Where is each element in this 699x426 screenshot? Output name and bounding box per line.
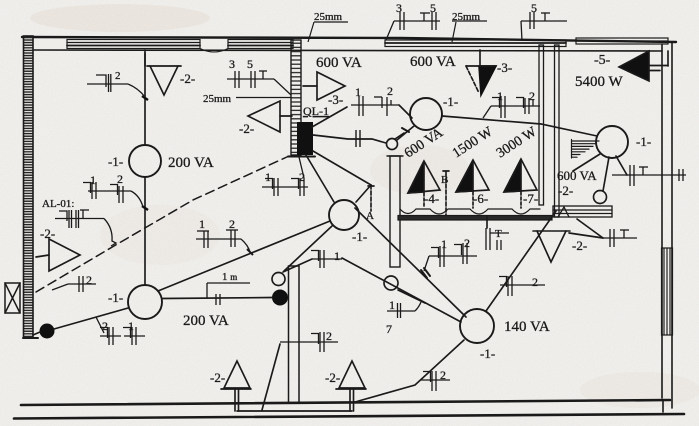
annotation 25mm second	[452, 21, 487, 42]
wire dot D1 to wall	[33, 332, 40, 335]
lamp -1- 140 VA	[460, 309, 494, 343]
junction blob riser lower	[142, 206, 148, 210]
switch SW7b pair 1-2	[196, 230, 253, 255]
annotation 25mm first	[308, 22, 348, 42]
switch SW1	[87, 74, 145, 97]
luminaire -3- filled top-middle	[466, 50, 496, 95]
tap symbol on QL-S1 wire	[356, 130, 360, 147]
window right wall	[662, 248, 673, 335]
heater -7- 3000 W	[504, 159, 537, 208]
switch SW18 near C5	[499, 276, 545, 296]
switch SW12 pair	[351, 96, 399, 116]
window top C	[385, 40, 566, 47]
wall top outer	[22, 37, 676, 42]
wire T10 to sw22	[569, 233, 603, 238]
wire QL to sw12	[312, 107, 347, 127]
junction tick mid	[421, 268, 430, 278]
junction blob riser upper	[142, 96, 148, 100]
wire A to C4	[356, 185, 371, 202]
outlet above junction box	[272, 273, 285, 286]
outlet near wall stub	[384, 276, 398, 290]
interior wall D (bottom middle)	[289, 266, 300, 403]
junction box lower-left	[40, 324, 55, 339]
switch SW19 1-7	[387, 302, 421, 318]
switch SW17 bottom 2	[280, 332, 338, 352]
luminaire -2- beside QL-1	[248, 101, 292, 132]
luminaire -2- bottom left	[221, 361, 251, 411]
switch SW16 T	[486, 228, 509, 250]
switch SW7 pair below QL	[262, 157, 308, 196]
switch SW20 bottom 2	[421, 371, 450, 391]
luminaire -2- bottom middle	[336, 361, 366, 411]
luminaire -2- upper-left	[145, 53, 181, 95]
outlet near QL-1	[387, 128, 410, 150]
wire bottom to sw2	[262, 344, 280, 410]
wire C6 to fan	[573, 154, 600, 171]
luminaire -2- mid-left	[36, 239, 80, 271]
meter X-box	[5, 283, 20, 313]
switch SW21 right room	[612, 165, 686, 186]
lamp -1- center	[329, 200, 359, 230]
wire D1 C4 to C5	[355, 208, 466, 317]
wall bottom band	[21, 400, 670, 405]
luminaire -2- right room	[533, 231, 570, 262]
switch SW5 pair bottom left	[96, 317, 145, 345]
wire S2 to sw1	[283, 259, 312, 272]
wire sw16 stub	[486, 217, 488, 228]
annotation 25mm inside	[236, 97, 291, 99]
interior wall B right pair	[555, 45, 560, 217]
wire C3 to C6	[442, 116, 597, 136]
window top D	[576, 38, 668, 44]
switch SW6 1m	[207, 283, 250, 305]
wire S3 to D2line	[398, 290, 425, 303]
switch SW22 below bench	[603, 229, 637, 247]
wall bottom extra line	[14, 414, 684, 419]
wire C5 to bottom wall	[355, 340, 464, 402]
heater -4- 600 VA	[408, 161, 440, 208]
window top B	[228, 40, 293, 49]
wire sw22 hook	[577, 219, 603, 238]
node A stub	[368, 185, 374, 211]
switch AL-01	[55, 210, 116, 246]
interior wall A foot	[288, 156, 315, 158]
wire sw12 to C3	[399, 105, 412, 118]
heater -6- 1500 W	[456, 160, 489, 208]
lamp -1- 200 VA upper-left	[129, 145, 161, 177]
wire B dashed	[443, 171, 449, 215]
wire dashed feeder	[36, 156, 289, 292]
wall top inner	[33, 50, 662, 51]
switch SW15 one	[311, 250, 342, 268]
wire QL to A	[313, 151, 371, 185]
rotated texts	[402, 124, 540, 161]
heater -5- 5400 W	[619, 51, 668, 81]
outlet right room	[594, 191, 607, 204]
switch SW13 pair	[483, 96, 540, 118]
wire C2 to C4	[158, 221, 330, 291]
window top A	[67, 40, 200, 49]
fan hatch right room	[572, 140, 600, 159]
wire C2 to D2	[162, 298, 272, 299]
junction box center	[272, 290, 288, 306]
wire C6 to sw21	[616, 156, 627, 175]
wall stub C	[387, 156, 403, 267]
panel QL-1	[297, 122, 313, 155]
wire dot D1 to C2	[54, 308, 128, 329]
wire S1 flag to C3	[397, 126, 414, 140]
wire C4 to S2	[284, 226, 332, 271]
wire D2 sw to C5	[342, 258, 461, 322]
switch SW14 pair mid	[424, 243, 477, 271]
wire riser x145 upper	[144, 50, 146, 145]
switch SW2 pair	[83, 182, 143, 207]
wall right	[662, 42, 672, 408]
wire bottom run	[237, 410, 352, 412]
wire riser x145 lower	[144, 177, 146, 285]
lamp -1- 600 VA right room	[596, 126, 628, 158]
switch SW11 top 5	[521, 12, 567, 41]
interior wall A (QL wall)	[291, 40, 301, 155]
wire QL to C4	[306, 155, 334, 202]
lamp -1- 600 VA top-middle	[410, 98, 442, 130]
wall left	[24, 36, 34, 338]
wire C5 to bench	[486, 211, 556, 311]
switch SW4	[52, 276, 96, 292]
switch SW9 3-5 inside	[227, 71, 291, 95]
bench right room	[553, 206, 612, 217]
door sag top wall	[200, 49, 228, 53]
wire QL to S1	[313, 135, 386, 143]
luminaire -3- open top-middle	[303, 72, 345, 100]
lamp -1- 200 VA lower-left	[128, 285, 162, 319]
kitchen bottom band	[398, 216, 552, 221]
switch SW8 top 3-5	[386, 12, 440, 40]
interior wall B left pair	[539, 45, 544, 205]
kitchen scallop conduit	[400, 209, 540, 214]
wire C6 to S4	[603, 157, 609, 191]
wall left foot	[23, 337, 38, 339]
